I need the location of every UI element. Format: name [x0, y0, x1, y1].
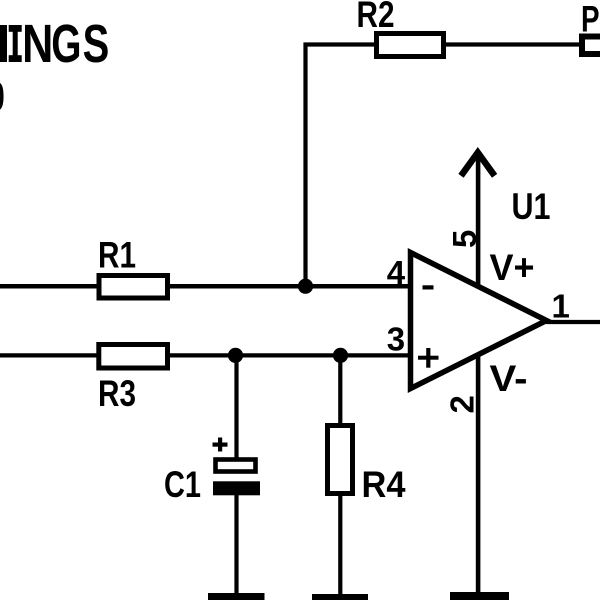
svg-text:V+: V+	[490, 247, 535, 288]
ground under C1	[208, 593, 265, 600]
op-amp pin number 3	[387, 320, 405, 357]
resistor R3	[98, 345, 168, 415]
svg-text:2: 2	[444, 395, 481, 413]
op-amp U1	[411, 186, 551, 399]
wire: op-amp output pin 1	[546, 320, 600, 324]
svg-text:4: 4	[387, 254, 406, 291]
V+ power arrow on pin 5	[461, 151, 495, 287]
resistor R1	[98, 235, 168, 299]
wire: feedback net from node A up through R2 to P1	[306, 45, 582, 289]
op-amp pin number 5	[446, 230, 483, 248]
resistor R4	[328, 426, 406, 506]
ground under R4	[312, 594, 368, 600]
junction node C (R4 tap on row 2)	[333, 348, 348, 363]
wire: C1 to ground segment	[234, 492, 238, 596]
wire: C1 branch upper segment	[234, 355, 238, 460]
svg-text:N: N	[22, 15, 53, 75]
op-amp pin number 2	[444, 395, 481, 413]
junction node A (feedback tap on row 1)	[298, 279, 313, 294]
svg-text:R2: R2	[357, 0, 395, 35]
ground under pin 2	[450, 592, 509, 600]
partial text 0 (cropped at left edge)	[0, 75, 5, 119]
connector P1	[581, 0, 600, 54]
svg-text:R1: R1	[98, 235, 136, 276]
wire: R4 to ground segment	[338, 493, 342, 596]
capacitor C1	[164, 438, 260, 506]
op-amp pin number 1	[552, 288, 570, 325]
svg-text:S: S	[83, 14, 110, 74]
wire: R4 branch upper segment	[338, 355, 342, 426]
svg-text:0: 0	[0, 75, 5, 119]
wire: input row 2 (left edge to op-amp pin 3)	[0, 353, 412, 357]
svg-text:P1: P1	[581, 0, 600, 40]
svg-text:R4: R4	[362, 464, 406, 505]
title text (cropped)	[0, 13, 109, 75]
svg-text:U1: U1	[512, 186, 551, 227]
svg-text:C1: C1	[164, 464, 201, 505]
svg-text:R3: R3	[98, 373, 136, 414]
op-amp pin number 4	[387, 254, 406, 291]
svg-text:3: 3	[387, 320, 405, 357]
svg-text:1: 1	[552, 288, 570, 325]
svg-text:V-: V-	[490, 358, 528, 399]
junction node B (C1 tap on row 2)	[228, 348, 243, 363]
wire: input row 1 (left edge to op-amp pin 4)	[0, 284, 412, 289]
svg-text:G: G	[51, 13, 81, 74]
resistor R2	[357, 0, 444, 57]
wire: pin 2 to ground	[476, 353, 481, 595]
